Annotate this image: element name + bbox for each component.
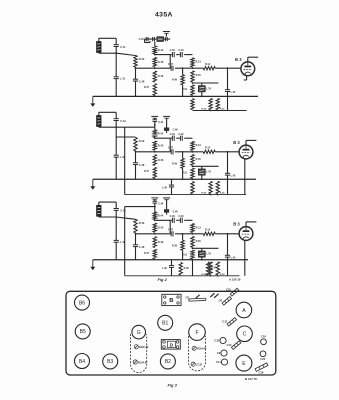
chassis symbol (cluster left) (stage 2) [151, 116, 158, 119]
socket B6 [75, 295, 90, 310]
transducer M1 (pickup input) (stage 1) [97, 42, 102, 53]
wire cluster right tail (stage 2) [166, 131, 168, 133]
svg-text:R.13: R.13 [196, 61, 202, 64]
svg-text:L.45: L.45 [231, 257, 236, 260]
svg-text:C9: C9 [217, 351, 221, 355]
socket B5 [75, 324, 90, 339]
inductor L76 (bias box) (stage 1) [198, 83, 211, 92]
resistor R46 (column B) (stage 3) [153, 237, 164, 248]
svg-text:F: F [195, 330, 198, 336]
socket C [237, 326, 253, 342]
wire left drop (stage 3) [115, 217, 117, 240]
socket B2 [160, 354, 175, 369]
wire left drop (stage 1) [115, 53, 117, 77]
jack C9 [221, 350, 227, 356]
capacitor C50 (below bus) (stage 3) [162, 260, 174, 276]
resistor R52 (column D lower) (stage 1) [191, 99, 194, 110]
svg-text:C.48: C.48 [139, 245, 145, 249]
resistor R47 (column B) (stage 2) [144, 167, 157, 178]
wire w2 grid line (stage 3) [136, 233, 194, 235]
wire below C11 (stage 1) [115, 47, 117, 54]
wire bias box to bus (stage 3) [201, 257, 203, 260]
wire cathode lead (stage 3) [244, 240, 246, 275]
node column D rail (stage 2) [192, 165, 194, 167]
capacitor C46 (cluster right stem) (stage 3) [164, 209, 178, 213]
resistor R13 (column D) (stage 2) [191, 141, 202, 150]
switch box SK1 (stage 1) [157, 37, 164, 42]
wire column E top (stage 1) [227, 68, 229, 90]
wire cluster right tail (stage 3) [166, 213, 168, 215]
svg-text:C10: C10 [226, 288, 231, 292]
wire column A to bus (stage 1) [135, 81, 137, 96]
svg-text:B1: B1 [162, 321, 168, 327]
wire transducer top loop (stage 2) [99, 112, 116, 118]
capacitor C46 (cluster right stem) (stage 2) [164, 128, 178, 132]
node column D bus (stage 3) [192, 259, 194, 261]
trimmer C12 [227, 318, 236, 326]
svg-text:R.40: R.40 [139, 139, 145, 143]
chassis outline (Fig 3) [66, 291, 276, 375]
wire column E top (stage 2) [227, 152, 229, 174]
capacitor C49 (w1) (stage 1) [178, 49, 184, 57]
wire left drop lower (stage 1) [115, 79, 117, 97]
wire column A junction (stage 2) [135, 151, 137, 153]
jack C10 [220, 337, 226, 343]
svg-text:R.50: R.50 [196, 74, 202, 77]
resistor R54 (below bus) (stage 3) [179, 262, 189, 275]
wire column C top (stage 1) [182, 68, 184, 75]
socket B4 [75, 354, 90, 369]
resistor R46 (column B) (stage 1) [153, 71, 164, 82]
svg-text:L.76: L.76 [206, 171, 211, 174]
node column B wire1 (stage 3) [154, 219, 156, 221]
resistor R14 (grid stopper) (stage 1) [203, 63, 215, 70]
wire column A below (stage 3) [135, 234, 137, 245]
transducer M2 (pickup input) (stage 2) [97, 116, 102, 127]
svg-text:C.40: C.40 [139, 38, 145, 41]
trimmer C14 [231, 341, 240, 349]
resistor R105 (lower) (stage 2) [216, 181, 225, 194]
resistor R45 (column B) (stage 2) [153, 141, 164, 150]
resistor R46 (column B) (stage 2) [153, 155, 164, 166]
svg-text:L.76: L.76 [206, 87, 211, 90]
wire column B foot (stage 1) [154, 95, 156, 96]
jack C11 [221, 359, 227, 365]
svg-text:B 127 76: B 127 76 [245, 377, 257, 381]
wire transducer bottom (stage 1) [99, 52, 136, 55]
resistor R44 (column B) (stage 3) [153, 212, 164, 220]
svg-text:R.51: R.51 [182, 253, 188, 256]
resistor R105 (lower) (stage 3) [216, 262, 225, 276]
wire cathode rail (stage 1) [193, 82, 219, 84]
svg-text:B 3: B 3 [235, 57, 242, 62]
svg-text:R.50: R.50 [196, 240, 202, 243]
wire bottom rail (stage 3) [125, 275, 240, 277]
wire column A to bus (stage 2) [135, 165, 137, 180]
wire cathode lead (stage 2) [244, 159, 246, 195]
pot R100-39 (in G travel) [134, 345, 138, 349]
resistor R52 (column D lower) (stage 2) [191, 182, 194, 194]
svg-text:R.40: R.40 [139, 221, 145, 225]
capacitor C11 (stage 1) [114, 45, 126, 49]
socket B3 [103, 354, 118, 369]
capacitor C46 (w1) (stage 3) [170, 215, 176, 223]
wire w1 drop (stage 1) [169, 55, 171, 69]
svg-text:C.49: C.49 [178, 133, 184, 136]
resistor R51 (column D) (stage 1) [182, 85, 194, 96]
svg-text:B 3: B 3 [233, 222, 240, 227]
wire left drop lower (stage 2) [115, 157, 117, 179]
wire column A below (stage 2) [135, 152, 137, 163]
resistor R14 (grid stopper) (stage 3) [203, 228, 215, 235]
chassis symbol (cluster) (stage 1) [163, 32, 170, 37]
resistor R47 (column B) (stage 1) [144, 84, 157, 96]
resistor R51 (column D) (stage 3) [182, 250, 194, 259]
svg-text:Fig 3: Fig 3 [168, 383, 178, 388]
wire plate lead (stage 3) [246, 222, 256, 227]
svg-text:C: C [243, 332, 247, 338]
wire column E top (stage 3) [227, 234, 229, 256]
capacitor C43 (left) (stage 3) [114, 240, 126, 244]
connector D [161, 340, 180, 350]
svg-text:R.44: R.44 [158, 132, 164, 136]
svg-text:C.47: C.47 [168, 63, 174, 66]
svg-text:R104-67: R104-67 [138, 361, 148, 364]
wire column C foot (stage 1) [182, 85, 184, 97]
wire cluster left stem (stage 2) [154, 122, 156, 130]
wire column B foot (stage 3) [154, 259, 156, 260]
node column B wire2 (stage 1) [154, 67, 156, 69]
pot C132 (in F travel) [191, 362, 195, 366]
wire column A junction (stage 1) [135, 67, 137, 69]
resistor R104 (lower) (stage 1) [201, 98, 212, 110]
wire bias box to bus (stage 2) [201, 175, 203, 180]
wire bottom rail (stage 2) [125, 194, 246, 196]
capacitor C47 (w2) (stage 2) [168, 147, 174, 155]
node column B wire1 (stage 1) [154, 54, 156, 56]
node column D rail (stage 3) [192, 247, 194, 249]
wire w2 grid line (stage 2) [136, 151, 194, 153]
chassis symbol (cluster right) (stage 2) [163, 116, 170, 127]
svg-text:C.44: C.44 [158, 121, 164, 124]
wire left drop lower (stage 3) [115, 242, 117, 260]
resistor R47 (column B) (stage 3) [144, 249, 157, 258]
resistor R14 (grid stopper) (stage 2) [203, 146, 215, 153]
svg-text:C.48: C.48 [139, 163, 145, 167]
socket F [189, 324, 206, 341]
svg-text:C11: C11 [216, 360, 221, 364]
wire below C13 (stage 3) [115, 210, 117, 217]
trimmer C6 [222, 297, 231, 305]
svg-text:R.47: R.47 [144, 252, 150, 255]
socket G [132, 325, 146, 339]
capacitor C46 (w1) (stage 2) [170, 133, 176, 141]
svg-text:R.46: R.46 [158, 240, 164, 244]
svg-text:R.46: R.46 [158, 74, 164, 78]
wire plate lead (stage 2) [246, 140, 256, 145]
svg-text:R.14: R.14 [205, 63, 211, 66]
wire column E to bottom rail (stage 3) [227, 257, 229, 276]
ground (stage 3) [90, 260, 95, 271]
wire column E to bottom rail (stage 1) [227, 92, 229, 111]
capacitor C43 (cluster right) (stage 1) [165, 37, 167, 41]
transducer M3 (pickup input) (stage 3) [97, 205, 102, 216]
connector B [162, 294, 181, 305]
socket E [236, 355, 252, 371]
svg-text:R.49: R.49 [172, 244, 178, 247]
capacitor C44 (cluster left stem) (stage 2) [153, 120, 164, 124]
node column D bus (stage 1) [192, 96, 194, 98]
tube B3 (triode) (stage 1) [241, 62, 255, 76]
resistor R50 (column D) (stage 3) [191, 236, 202, 247]
wire cathode rail (stage 3) [193, 247, 219, 249]
svg-text:C16: C16 [258, 371, 263, 375]
svg-text:R.40: R.40 [139, 57, 145, 61]
wire ground bus (stage 2) [93, 178, 256, 180]
capacitor C43b (column A) (stage 3) [133, 245, 145, 249]
svg-text:C6: C6 [219, 298, 223, 302]
svg-text:L.48: L.48 [162, 187, 167, 190]
wire feed from long vertical (stage 3) [125, 206, 155, 208]
svg-text:435A: 435A [155, 11, 173, 18]
wire w1 (stage 2) [155, 137, 193, 139]
jack C20 [260, 351, 266, 357]
resistor R104 (lower) (stage 2) [201, 181, 212, 194]
wire w1 drop (stage 2) [169, 138, 171, 152]
capacitor C41 (left) (stage 1) [114, 76, 126, 80]
pot R104-66 (in F travel) [192, 346, 196, 350]
svg-text:C.47: C.47 [168, 229, 174, 232]
svg-text:R.45: R.45 [158, 226, 164, 230]
wire cathode rail (stage 2) [193, 165, 219, 167]
svg-text:R.13: R.13 [196, 144, 202, 147]
wire bottom rail (stage 1) [193, 110, 247, 112]
wire column B foot (stage 2) [154, 178, 156, 179]
svg-text:C14: C14 [226, 343, 231, 347]
wire column A below (stage 1) [135, 68, 137, 79]
resistor R50 (column D) (stage 1) [191, 71, 202, 82]
svg-text:B2: B2 [165, 359, 171, 365]
wire bias box to bus (stage 1) [201, 92, 203, 97]
svg-text:C.47: C.47 [168, 147, 174, 150]
wire column C top (stage 2) [182, 152, 184, 159]
ground (stage 1) [90, 96, 95, 107]
socket B1 [158, 315, 173, 330]
svg-text:R.14: R.14 [205, 146, 211, 149]
svg-text:C.46: C.46 [170, 133, 176, 136]
svg-text:C10: C10 [214, 339, 219, 343]
resistor R53 (lower) (stage 3) [206, 262, 216, 275]
svg-text:R.46: R.46 [158, 158, 164, 162]
resistor R105 (lower) (stage 1) [216, 98, 225, 110]
svg-text:C.46: C.46 [170, 215, 176, 218]
capacitor C40 (cluster left) (stage 1) [139, 37, 148, 41]
svg-text:C.46: C.46 [170, 49, 176, 52]
svg-text:C.49: C.49 [178, 215, 184, 218]
tube B3 (triode) (stage 2) [239, 145, 253, 159]
wire long vertical to lower rail (stage 2) [124, 127, 126, 194]
wire w2 to tube grid (stage 2) [215, 151, 239, 153]
svg-text:D: D [170, 343, 174, 349]
svg-text:B 3: B 3 [233, 140, 240, 145]
capacitor C12 (stage 2) [114, 119, 127, 123]
capacitor C49 (w1) (stage 2) [178, 133, 184, 141]
inductor L76 (bias box) (stage 3) [198, 248, 211, 257]
socket A [236, 302, 252, 318]
svg-text:B3: B3 [107, 359, 113, 365]
wire column C top (stage 3) [182, 234, 184, 241]
label B3 (stage 1) [235, 57, 242, 62]
node column D rail (stage 1) [192, 82, 194, 84]
wire column C foot (stage 3) [182, 250, 184, 259]
capacitor C47 (w2) (stage 1) [168, 63, 174, 71]
pot R104-67 (in G travel) [133, 360, 137, 364]
capacitor C49 (w1) (stage 3) [178, 215, 184, 223]
svg-text:C.44: C.44 [158, 203, 164, 206]
capacitor C41b (column A) (stage 1) [133, 79, 145, 83]
svg-text:C.46: C.46 [173, 210, 179, 213]
wire transducer bottom (stage 2) [99, 126, 155, 128]
adjuster C8 (pointer) [189, 298, 206, 301]
wire column A to bus (stage 3) [135, 247, 137, 260]
capacitor C42b (column A) (stage 2) [133, 163, 145, 167]
control G travel (dashed stadium) [131, 334, 147, 373]
svg-text:L.48: L.48 [162, 267, 167, 270]
wire w2 grid line (stage 1) [136, 67, 194, 69]
svg-text:L.41: L.41 [120, 76, 126, 80]
capacitor C47 (w2) (stage 3) [168, 229, 174, 237]
wire cluster left stem (stage 3) [154, 203, 156, 212]
wire w2 right (stage 3) [193, 233, 204, 235]
wire w2 to tube grid (stage 3) [215, 233, 239, 235]
svg-text:C12: C12 [222, 319, 227, 323]
wire transducer top loop (stage 1) [99, 38, 116, 44]
svg-text:C18: C18 [261, 334, 266, 338]
resistor R49 (column C) (stage 2) [172, 158, 184, 168]
node column D bus (stage 2) [192, 178, 194, 180]
svg-text:C.49: C.49 [178, 49, 184, 52]
adjuster C4 (slashes) [210, 293, 214, 297]
capacitor C13 (stage 3) [114, 209, 127, 213]
wire w1 (stage 1) [155, 54, 193, 56]
resistor R13 (column D) (stage 3) [191, 224, 202, 233]
wire left drop (stage 2) [115, 127, 117, 155]
resistor R50 (column D) (stage 2) [191, 154, 202, 165]
wire w1 (stage 3) [155, 219, 193, 221]
trimmer C10 [230, 288, 239, 296]
svg-text:R.49: R.49 [172, 162, 178, 165]
svg-text:L.45: L.45 [231, 175, 236, 178]
wire column C foot (stage 2) [182, 168, 184, 179]
svg-text:R.47: R.47 [144, 170, 150, 173]
resistor R13 (column D) (stage 1) [191, 58, 202, 67]
svg-text:R.48: R.48 [184, 267, 190, 270]
wire long vertical to lower rail (stage 3) [124, 207, 126, 276]
capacitor C46 (w1) (stage 1) [170, 49, 176, 57]
svg-text:R.13: R.13 [196, 226, 202, 229]
resistor R42a (stage 2) [134, 138, 145, 151]
svg-text:B6: B6 [79, 300, 85, 306]
resistor R104 (lower) (stage 3) [201, 262, 212, 276]
resistor R51 (column D) (stage 2) [182, 168, 194, 178]
capacitor C45 (column E) (stage 2) [225, 173, 236, 177]
svg-text:C.46: C.46 [173, 129, 179, 132]
svg-text:R.47: R.47 [144, 86, 150, 89]
capacitor C42 (left) (stage 2) [114, 155, 126, 159]
label B3 (stage 3) [233, 222, 240, 227]
wire ground bus (stage 3) [93, 259, 248, 261]
label B3 (stage 2) [233, 140, 240, 145]
resistor R44 (column B) (stage 2) [153, 130, 164, 138]
svg-text:C.13: C.13 [120, 209, 126, 213]
svg-text:C.11: C.11 [120, 45, 126, 49]
resistor R49 (column C) (stage 3) [172, 240, 184, 250]
wire cathode lead (stage 1) [244, 76, 247, 80]
svg-text:C.12: C.12 [120, 119, 126, 123]
wire w1 drop (stage 3) [169, 220, 171, 234]
wire ground bus (stage 1) [93, 95, 258, 97]
capacitor C45 (column E) (stage 1) [225, 90, 236, 94]
resistor R43a (stage 3) [134, 219, 145, 233]
wire top cluster row (stage 1) [145, 38, 171, 40]
capacitor C50 (below bus) (stage 2) [162, 179, 174, 194]
wire transducer top loop (stage 3) [99, 202, 116, 208]
inductor L76 (bias box) (stage 2) [198, 166, 211, 175]
wire w2 right (stage 1) [193, 67, 204, 69]
svg-text:R.51: R.51 [182, 88, 188, 91]
wire column A junction (stage 3) [135, 233, 137, 235]
svg-text:R104-66: R104-66 [197, 347, 207, 350]
svg-text:R.45: R.45 [158, 143, 164, 147]
tube B3 (triode) (stage 3) [239, 227, 253, 241]
svg-text:A 128 39: A 128 39 [228, 277, 241, 281]
wire transducer bottom (stage 3) [99, 216, 136, 219]
wire plate lead (stage 1) [248, 57, 258, 62]
node column B wire2 (stage 2) [154, 151, 156, 153]
node column B wire1 (stage 2) [154, 137, 156, 139]
svg-text:R.50: R.50 [196, 158, 202, 161]
svg-text:R.44: R.44 [158, 214, 164, 218]
svg-text:R100-39: R100-39 [139, 346, 149, 349]
resistor R45 (column B) (stage 3) [153, 223, 164, 232]
capacitor C42 (cluster) (stage 1) [153, 37, 155, 41]
trimmer C16 [255, 363, 268, 371]
control F travel (dashed stadium) [189, 336, 206, 371]
capacitor C45 (column E) (stage 3) [225, 255, 236, 259]
svg-text:R.44: R.44 [158, 48, 164, 52]
svg-text:R.45: R.45 [158, 60, 164, 64]
svg-text:C.48: C.48 [139, 79, 145, 83]
svg-text:B5: B5 [80, 329, 86, 335]
resistor R49 (column C) (stage 1) [172, 75, 184, 85]
wire column A feed (stage 2) [116, 136, 135, 138]
svg-text:C8: C8 [185, 296, 189, 300]
jack C18 [261, 339, 267, 345]
wire w2 right (stage 2) [193, 151, 204, 153]
svg-text:G: G [137, 330, 141, 336]
node column B wire2 (stage 3) [154, 233, 156, 235]
resistor R45 (column B) (stage 1) [153, 57, 164, 66]
svg-text:Fig 2: Fig 2 [158, 277, 168, 282]
chassis symbol (cluster right) (stage 3) [163, 198, 170, 209]
ground (stage 2) [90, 179, 95, 190]
svg-text:C20: C20 [260, 357, 265, 361]
wire cluster to column B (stage 1) [154, 42, 156, 47]
wire w2 to tube grid (stage 1) [215, 67, 241, 69]
wire cluster hook (stage 1) [145, 39, 151, 42]
svg-text:C132: C132 [196, 363, 202, 366]
svg-text:R.49: R.49 [172, 79, 178, 82]
